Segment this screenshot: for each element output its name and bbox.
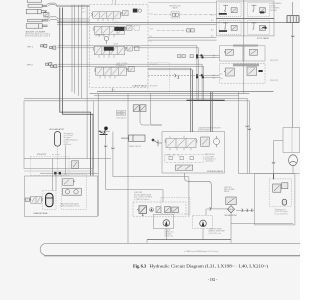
OPT1 coupler b <box>50 46 56 49</box>
pilot lower cell B-3 <box>244 46 265 61</box>
svg-text:OPT 1: OPT 1 <box>27 46 34 48</box>
svg-text:ACCUMULATOR: ACCUMULATOR <box>50 128 65 131</box>
svg-text:4WD/TIPS: 4WD/TIPS <box>224 187 232 189</box>
svg-text:(L31, LX198~) (14.3MPa): (L31, LX198~) (14.3MPa) <box>134 197 152 199</box>
wire: P T lines valve block to pilot valve <box>148 38 217 41</box>
wire: tank return bus across page <box>57 21 287 23</box>
setting text box <box>117 110 126 116</box>
svg-text:1 SEC → 3(L) → (5): 1 SEC → 3(L) → (5) <box>166 155 180 157</box>
wire: charge inlet <box>25 198 31 202</box>
svg-text:SLACK PISTON: SLACK PISTON <box>129 145 142 148</box>
steering priority valve box <box>162 132 225 173</box>
wire: valve block drop to bus <box>87 88 128 244</box>
loader valve enclosure <box>90 5 149 88</box>
anti-squat relief <box>226 197 236 205</box>
svg-text:- 182 -: - 182 - <box>208 278 218 282</box>
svg-text:P 1: P 1 <box>112 90 115 92</box>
wire: OPT1 lines to pilot valve <box>58 46 220 58</box>
wire: pump discharge with breaks <box>207 208 228 210</box>
pilot arrow dark <box>262 27 266 29</box>
pilot cap circle <box>138 9 141 12</box>
svg-text:P1-1: P1-1 <box>150 14 153 16</box>
relief valve spool3 <box>126 46 133 51</box>
lift cylinder (top, cut by page edge) <box>26 0 42 14</box>
wire: left block feed vertical <box>86 5 88 93</box>
OPT2 coupler b <box>51 65 57 68</box>
svg-text:SUB PUMP: SUB PUMP <box>134 192 142 194</box>
bucket cylinder rod <box>42 20 48 27</box>
break on steering line <box>272 162 275 164</box>
wire: small verticals above valve block <box>72 5 81 99</box>
wire: OPT2 lines to pilot valve <box>58 64 220 77</box>
break on right line a <box>246 126 249 128</box>
pilot port bar 2 <box>260 11 264 13</box>
traction sub box <box>61 175 86 210</box>
svg-text:14.2±0.5MPa: 14.2±0.5MPa <box>205 156 215 158</box>
wire: inlet pair verticals <box>191 68 213 132</box>
shuttle fitting on dash-dot line <box>187 29 195 32</box>
wire: steering feed <box>274 141 284 180</box>
svg-text:4T-1: 4T-1 <box>82 11 85 13</box>
wire: wheel column link <box>292 166 294 174</box>
svg-text:(150kgf/cm²): (150kgf/cm²) <box>116 64 126 67</box>
unloading relief valve <box>137 206 146 216</box>
svg-text:B-1: B-1 <box>82 5 85 7</box>
priority section <box>201 136 220 147</box>
wire: lift cylinder lines to loader valve <box>57 5 89 21</box>
svg-text:T-1: T-1 <box>150 41 152 43</box>
svg-text:L31 2MPa: L31 2MPa <box>117 111 124 113</box>
svg-text:B-2: B-2 <box>211 36 214 38</box>
svg-text:STEERING PUMP /: STEERING PUMP / <box>209 229 223 231</box>
steering valve (orbitrol) box <box>283 128 300 153</box>
small check pair <box>178 55 194 58</box>
svg-text:P-1: P-1 <box>150 36 153 38</box>
bucket cylinder <box>26 19 42 28</box>
hydraulic tank <box>40 243 300 255</box>
svg-text:N₂ gas: N₂ gas <box>64 142 69 144</box>
svg-text:B-4: B-4 <box>213 77 216 79</box>
svg-text:4TB (OPT): 4TB (OPT) <box>37 154 47 156</box>
svg-text:LEVEL: LEVEL <box>271 5 276 7</box>
wire: joystick link with arrow <box>98 94 110 217</box>
suspension circuit box <box>255 174 295 225</box>
wire: 4P1 4P2 lines with breaks <box>148 68 202 75</box>
svg-text:Max press.: Max press. <box>64 137 72 139</box>
wire: accumulator drop <box>57 146 59 171</box>
svg-text:Qr35ℓ: Qr35ℓ <box>114 42 119 45</box>
pilot center vertical <box>243 0 245 94</box>
inner metering box <box>165 154 204 162</box>
grey shade band row3 <box>233 44 258 46</box>
svg-text:4P3 (OPT): 4P3 (OPT) <box>270 60 279 62</box>
svg-text:VALVE: VALVE <box>44 18 50 21</box>
steering wheel <box>289 155 298 166</box>
svg-text:▲ TANK (use 10W30/Engine Oil: ▲ TANK (use 10W30/Engine Oil CD class) <box>184 250 219 253</box>
steering pump 2 <box>193 215 213 228</box>
traction motors <box>63 188 82 195</box>
capsule dashed box <box>43 191 56 210</box>
load gauge port <box>104 36 108 40</box>
wire: return manifold with breaks <box>236 209 255 211</box>
wire: top rail to pilot valve <box>148 1 217 3</box>
wire: main pressure bus band <box>24 92 274 101</box>
svg-text:P1-2: P1-2 <box>150 29 153 31</box>
wire: pilot dash-dot to restriction valve <box>154 15 217 31</box>
wire: priority feed drop <box>150 94 162 126</box>
bucket cylinder hoses <box>48 17 59 21</box>
wire: pilot pair verticals continuing down <box>197 55 204 100</box>
svg-text:B-5: B-5 <box>220 74 223 76</box>
spool valve 2 (bucket) <box>93 26 126 34</box>
spool valve 3 (aux1) <box>93 46 126 55</box>
pilot port bar 3 <box>219 30 227 32</box>
wire: bold priority line <box>187 99 225 101</box>
main pump <box>163 220 170 227</box>
OPT2 coupler a <box>46 63 52 66</box>
break return b <box>247 209 249 212</box>
svg-text:(T. HEIGHT): (T. HEIGHT) <box>271 8 280 10</box>
charge pedal valve <box>29 196 42 203</box>
wire: spool port stubs <box>98 18 115 78</box>
solenoid block spool3 <box>104 47 114 51</box>
break on cooler line <box>291 36 294 38</box>
svg-text:Qr35ℓ: Qr35ℓ <box>114 21 119 24</box>
break return c <box>251 209 253 212</box>
svg-text:B-3: B-3 <box>213 57 216 59</box>
oil cooler <box>287 16 299 23</box>
wire: steering valve outlet <box>185 173 212 209</box>
svg-text:(4PTB OPT): (4PTB OPT) <box>95 35 105 37</box>
spool valve 4 (aux2) <box>94 67 127 75</box>
break on right line b <box>248 129 251 131</box>
dark port mark 4P4 <box>259 70 263 72</box>
sub pump box <box>133 202 186 217</box>
svg-text:L40 2MPa: L40 2MPa <box>117 114 124 116</box>
break on 4P2 line <box>178 76 180 79</box>
svg-text:LOADER VALVE: LOADER VALVE <box>132 85 148 88</box>
wire: bus through left box <box>24 158 111 160</box>
solenoid block spool1 <box>133 9 138 13</box>
main pump 1 <box>154 214 174 228</box>
svg-text:STEERING VALVE: STEERING VALVE <box>207 170 224 173</box>
solenoid block spool2 <box>114 27 124 31</box>
wire: top entry stubs <box>113 0 116 5</box>
wire: charge verticals from bus <box>52 146 65 191</box>
svg-text:DETENT: DETENT <box>271 10 277 12</box>
grey shade band in optional pilot section <box>233 64 259 67</box>
wire: center drop lines with breaks <box>106 132 189 217</box>
wire: suction lines to tank <box>147 209 231 244</box>
relief valve spool1 <box>121 10 128 15</box>
pilot optional section 4P3 4P4 <box>220 63 266 83</box>
wire: solenoid drop to steering box <box>140 111 162 125</box>
break on 4P1 line <box>175 74 177 77</box>
svg-text:(4WD/sus): (4WD/sus) <box>64 144 72 146</box>
pilot reducing valve A-1 <box>219 3 241 17</box>
suspension valve <box>273 183 288 192</box>
4TB fitting box <box>72 161 79 169</box>
charge pedal enclosure <box>25 176 98 217</box>
svg-text:Fig. 6.3: Fig. 6.3 <box>133 263 147 268</box>
svg-text:CHARGE PEDAL: CHARGE PEDAL <box>33 212 48 215</box>
pilot reducing valve A-2 <box>219 20 241 34</box>
wire: steering spool port stubs <box>170 136 191 151</box>
wire: lower return line <box>231 222 293 224</box>
wire: coupler line above charge pedal <box>40 172 98 174</box>
svg-text:4P4 (OPT): 4P4 (OPT) <box>270 80 279 82</box>
slack piston <box>121 135 145 141</box>
4TB opt dashed enclosure <box>31 156 70 175</box>
svg-text:OPT 2: OPT 2 <box>27 65 34 67</box>
wire: cooler return line vertical <box>292 2 294 128</box>
control lever <box>152 139 162 146</box>
charge accumulator capsule <box>46 193 53 206</box>
lift cylinder rod <box>41 5 47 12</box>
svg-text:VALVE: VALVE <box>172 6 178 9</box>
svg-text:4P2 (OPT): 4P2 (OPT) <box>150 86 158 88</box>
svg-text:(Φ75×Φ45×448 (L40, LX210~)): (Φ75×Φ45×448 (L40, LX210~)) <box>25 34 50 37</box>
steering valve spool <box>165 138 198 147</box>
break return a <box>242 209 244 212</box>
spool valve 1 (lift) <box>91 12 121 19</box>
relief valve spool2 <box>125 25 132 30</box>
in-line filter <box>227 206 234 213</box>
break pump line <box>210 207 212 210</box>
break center line a <box>104 146 107 148</box>
junction couplers on pilot lines A-3 B-3 <box>196 54 204 58</box>
junction couplers on pilot lines A-4 B-4 <box>196 74 204 78</box>
solenoid pair above joystick <box>133 105 146 112</box>
pilot reducing valve B-2 <box>247 20 269 34</box>
relief valve spool4 <box>127 67 134 72</box>
svg-text:B-1: B-1 <box>211 20 214 22</box>
pilot valve assembly box <box>217 1 275 36</box>
sub pump internals <box>149 207 161 213</box>
cylinder lock valve <box>44 11 49 16</box>
bottom check valve <box>175 165 192 170</box>
break center line b <box>111 148 114 150</box>
opt ports dashed enclosure <box>148 63 170 93</box>
mini accumulator <box>282 199 286 205</box>
svg-text:4P1 (OPT): 4P1 (OPT) <box>150 64 158 66</box>
wire: suction manifold line <box>147 239 231 241</box>
joystick (pilot controller) <box>100 127 108 135</box>
steering pump <box>200 220 207 227</box>
pilot reducing valve B-1 <box>247 3 269 17</box>
wire: second bottom line of left box <box>24 170 94 172</box>
svg-text:PILOT VALVE: PILOT VALVE <box>257 37 270 40</box>
pilot port bar 1 <box>219 13 227 15</box>
4wd solenoid valves <box>161 198 190 215</box>
OPT1 coupler a <box>41 44 47 47</box>
svg-text:IN-LINE FILTER: IN-LINE FILTER <box>225 215 238 217</box>
wire: dark feed pair staircase to charge block <box>60 8 93 176</box>
junction couplers charge line <box>54 172 61 175</box>
wire: right drop lines <box>239 92 300 174</box>
lift cylinder hoses <box>47 3 58 6</box>
pilot lower cell A-3 <box>220 46 243 61</box>
left circuit enclosure <box>24 101 94 169</box>
